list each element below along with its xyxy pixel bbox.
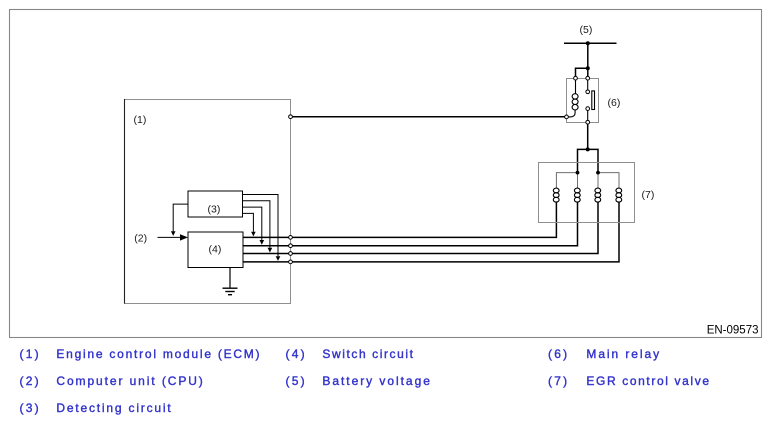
svg-text:(6): (6) <box>608 97 621 109</box>
svg-text:(7): (7) <box>642 189 655 201</box>
svg-text:(2): (2) <box>134 232 147 244</box>
svg-text:(1): (1) <box>134 114 147 126</box>
svg-text:(4): (4) <box>209 243 222 255</box>
svg-text:EN-09573: EN-09573 <box>707 325 759 337</box>
svg-text:(5): (5) <box>580 24 593 36</box>
svg-text:(3): (3) <box>208 203 221 215</box>
